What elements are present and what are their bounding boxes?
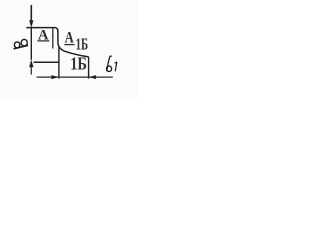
svg-text:А: А — [65, 29, 74, 46]
svg-text:1Б: 1Б — [70, 54, 87, 74]
svg-text:А: А — [38, 28, 49, 44]
svg-text:1Б: 1Б — [76, 34, 89, 53]
